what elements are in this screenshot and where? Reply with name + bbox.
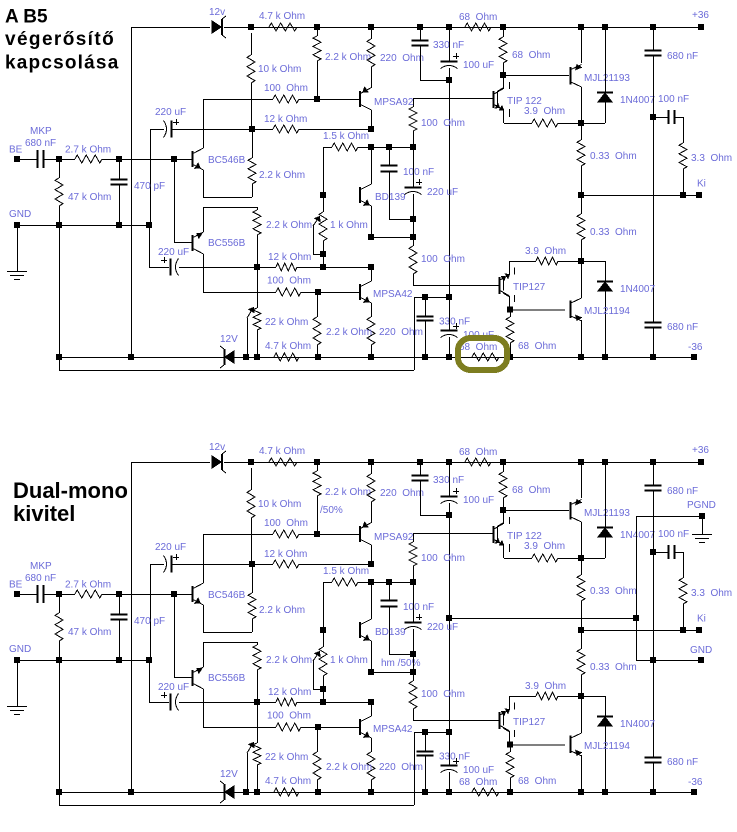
transistor TIP122 <box>493 526 495 543</box>
svg-text:100 Ohm: 100 Ohm <box>267 711 311 722</box>
svg-text:12V: 12V <box>220 769 238 780</box>
svg-text:330 nF: 330 nF <box>439 317 470 328</box>
svg-text:10 k Ohm: 10 k Ohm <box>258 64 301 75</box>
resistor 100 Ohm col5 lower <box>409 681 417 709</box>
resistor 68 Ohm vert right <box>503 465 505 472</box>
capacitor 330nF top <box>420 30 422 40</box>
wire MJL21194 base <box>510 744 565 746</box>
resistor 68 Ohm bottom rail <box>472 788 499 796</box>
resistor 4.7k top <box>236 462 269 464</box>
svg-text:MPSA42: MPSA42 <box>373 289 413 300</box>
svg-text:100 Ohm: 100 Ohm <box>264 83 308 94</box>
wire TIP122 base feed <box>413 98 415 107</box>
svg-text:2.7 k Ohm: 2.7 k Ohm <box>65 145 111 156</box>
svg-text:0.33 Ohm: 0.33 Ohm <box>590 586 637 597</box>
svg-text:2.2 k Ohm: 2.2 k Ohm <box>259 605 305 616</box>
resistor 12k row1 <box>273 560 299 568</box>
wire BC546B collector row <box>204 534 273 536</box>
wire TIP122 base feed <box>413 533 415 542</box>
wire BC556 collector row <box>203 292 276 294</box>
resistor 68 Ohm top rail <box>465 23 491 31</box>
svg-text:12 k Ohm: 12 k Ohm <box>268 252 311 263</box>
capacitor 330nF top <box>420 465 422 475</box>
resistor 1.5k <box>323 147 332 149</box>
capacitor 680nF top right <box>653 465 655 485</box>
svg-text:Ki: Ki <box>697 179 706 190</box>
resistor 100 Ohm row2 <box>276 288 301 296</box>
svg-text:0.33 Ohm: 0.33 Ohm <box>590 151 637 162</box>
svg-text:GND: GND <box>9 209 31 220</box>
capacitor 100uF lower <box>449 297 451 330</box>
wire 59 column to rail <box>59 225 61 370</box>
ground symbol input <box>17 660 19 706</box>
resistor 0.33 Ohm upper <box>581 558 583 575</box>
capacitor 100nF mid <box>389 582 391 600</box>
capacitor 330nF lower <box>423 730 428 735</box>
resistor 47k <box>59 159 61 178</box>
capacitor MKP 680nF input <box>17 594 37 596</box>
svg-text:MJL21194: MJL21194 <box>584 741 630 752</box>
resistor 100 Ohm col5 <box>409 542 417 566</box>
svg-text:1N4007: 1N4007 <box>620 530 655 541</box>
svg-text:470 pF: 470 pF <box>134 181 165 192</box>
svg-text:PGND: PGND <box>687 500 716 511</box>
svg-text:BC546B: BC546B <box>208 155 246 166</box>
svg-text:1 k Ohm: 1 k Ohm <box>330 655 368 666</box>
svg-text:1 k Ohm: 1 k Ohm <box>330 220 368 231</box>
resistor 2.2k diff1 <box>248 158 256 184</box>
wire 653 column down <box>653 552 655 757</box>
resistor 2.2k col3 top <box>317 30 319 36</box>
svg-text:47 k Ohm: 47 k Ohm <box>68 627 111 638</box>
wire 1.5k row <box>323 147 325 195</box>
svg-text:68 Ohm: 68 Ohm <box>518 341 556 352</box>
resistor 12k row1 <box>273 125 299 133</box>
transistor MPSA42 <box>359 719 361 735</box>
wire BD139 emitter row <box>371 237 413 239</box>
wire PGND link row <box>449 618 637 620</box>
svg-text:680 nF: 680 nF <box>667 51 698 62</box>
svg-text:MPSA92: MPSA92 <box>374 532 414 543</box>
svg-text:MKP: MKP <box>30 561 52 572</box>
svg-text:2.2 k Ohm: 2.2 k Ohm <box>266 220 312 231</box>
svg-text:1N4007: 1N4007 <box>620 719 655 730</box>
wire left vertical link <box>131 462 133 792</box>
svg-text:12 k Ohm: 12 k Ohm <box>264 114 307 125</box>
wire 413 column down <box>413 237 415 246</box>
svg-text:68 Ohm: 68 Ohm <box>459 447 497 458</box>
capacitor 470pF <box>119 594 121 614</box>
node bottom rail junctions <box>129 790 134 795</box>
wire diode bottom link <box>605 696 607 716</box>
resistor 100 Ohm col5 lower <box>409 246 417 274</box>
wire BC556 collector row <box>203 727 276 729</box>
svg-text:680 nF: 680 nF <box>25 138 56 149</box>
svg-text:100 nF: 100 nF <box>658 529 689 540</box>
resistor 0.33 Ohm lower <box>581 630 583 649</box>
wire BC546 emitter row <box>203 197 252 199</box>
svg-text:1.5 k Ohm: 1.5 k Ohm <box>323 566 369 577</box>
node input BE <box>15 157 20 162</box>
resistor 2.7k <box>59 594 75 596</box>
capacitor 100uF top <box>449 465 451 496</box>
svg-text:3.9 Ohm: 3.9 Ohm <box>524 106 565 117</box>
svg-text:2.2 k Ohm: 2.2 k Ohm <box>266 655 312 666</box>
wire BC556 base row <box>174 594 176 677</box>
resistor 1.5k <box>323 582 332 584</box>
capacitor 100nF zobel <box>653 117 668 119</box>
transistor BD139 <box>359 622 361 638</box>
svg-text:MKP: MKP <box>30 126 52 137</box>
transistor MJL21194 <box>570 736 572 754</box>
svg-text:100 Ohm: 100 Ohm <box>421 553 465 564</box>
transistor BC546B <box>192 586 194 602</box>
svg-text:3.9 Ohm: 3.9 Ohm <box>524 541 565 552</box>
svg-text:68 Ohm: 68 Ohm <box>459 12 497 23</box>
svg-text:220 uF: 220 uF <box>158 247 189 258</box>
svg-text:100 Ohm: 100 Ohm <box>421 254 465 265</box>
svg-text:220 Ohm: 220 Ohm <box>379 762 423 773</box>
svg-text:12V: 12V <box>220 334 238 345</box>
wire top rail +36 <box>131 27 210 29</box>
svg-text:12v: 12v <box>209 7 225 18</box>
capacitor 470pF <box>119 159 121 179</box>
svg-text:BC546B: BC546B <box>208 590 246 601</box>
wire 3.9 Ohm bottom row <box>510 261 536 263</box>
transistor TIP127 <box>499 277 501 294</box>
wire bias feed line <box>59 370 414 372</box>
resistor 2.2k diff1 <box>248 593 256 619</box>
capacitor 220uF lower <box>149 660 151 702</box>
resistor 0.33 Ohm lower <box>581 195 583 214</box>
capacitor 100nF zobel <box>653 552 668 554</box>
wire 413 column down <box>413 672 415 681</box>
capacitor MKP 680nF input <box>17 159 37 161</box>
svg-text:220 uF: 220 uF <box>158 682 189 693</box>
wire 449 column <box>449 515 451 732</box>
svg-text:12 k Ohm: 12 k Ohm <box>264 549 307 560</box>
svg-text:220 Ohm: 220 Ohm <box>380 488 424 499</box>
wire MJL21193 base <box>503 75 569 77</box>
wire GND out row <box>636 660 701 662</box>
resistor 2.2k col3 bottom <box>317 292 319 317</box>
resistor 2.2k diff2 <box>253 645 261 670</box>
ground symbol input <box>17 225 19 271</box>
resistor 2.2k col3 top <box>317 465 319 471</box>
svg-text:1N4007: 1N4007 <box>620 284 655 295</box>
resistor 100 Ohm row2 <box>276 723 301 731</box>
svg-text:MPSA92: MPSA92 <box>374 97 414 108</box>
resistor 2.2k diff2 <box>253 210 261 235</box>
zener D2 12V bottom rail <box>224 349 226 365</box>
trimmer 1k <box>321 193 326 198</box>
diode 1N4007 top <box>605 465 607 527</box>
resistor 220 Ohm col4 bottom <box>367 752 375 780</box>
svg-text:TIP127: TIP127 <box>513 717 546 728</box>
wire 449 column <box>449 80 451 297</box>
svg-text:4.7 k Ohm: 4.7 k Ohm <box>265 776 311 787</box>
capacitor 680nF lower right <box>645 323 662 328</box>
resistor 68 Ohm bottom rail <box>472 353 499 361</box>
svg-text:100 Ohm: 100 Ohm <box>421 118 465 129</box>
resistor 3.3 Ohm zobel <box>683 117 685 143</box>
svg-text:10 k Ohm: 10 k Ohm <box>258 499 301 510</box>
svg-text:220 uF: 220 uF <box>427 622 458 633</box>
svg-text:680 nF: 680 nF <box>25 573 56 584</box>
svg-text:22 k Ohm: 22 k Ohm <box>265 317 308 328</box>
zener D2 12V bottom rail <box>224 784 226 800</box>
capacitor 220uF mid <box>405 187 422 189</box>
wire BC556 base row <box>174 159 176 242</box>
resistor 68 Ohm top rail <box>465 458 491 466</box>
svg-text:68 Ohm: 68 Ohm <box>459 777 497 788</box>
trimmer 1k <box>321 628 326 633</box>
capacitor 100uF top <box>449 30 451 61</box>
svg-text:2.7 k Ohm: 2.7 k Ohm <box>65 580 111 591</box>
svg-text:680 nF: 680 nF <box>667 757 698 768</box>
node +36 terminal <box>699 460 704 465</box>
node top rail junctions <box>249 460 254 465</box>
svg-text:BE: BE <box>9 580 23 591</box>
resistor 4.7k bottom <box>274 788 299 796</box>
resistor 4.7k bottom <box>274 353 299 361</box>
wire output Ki row <box>581 195 699 197</box>
svg-text:680 nF: 680 nF <box>667 486 698 497</box>
node GND terminal <box>15 658 20 663</box>
transistor TIP122 <box>493 91 495 108</box>
resistor 47k <box>59 594 61 613</box>
node top rail junctions <box>249 25 254 30</box>
wire 12k row1 / 220uF <box>150 129 152 225</box>
resistor 220 Ohm col4 top <box>371 30 373 39</box>
svg-text:/50%: /50% <box>320 505 343 516</box>
resistor 4.7k top <box>236 27 269 29</box>
svg-text:100 Ohm: 100 Ohm <box>421 689 465 700</box>
node -36 terminal <box>692 355 697 360</box>
wire 12k row1 / 220uF <box>150 564 152 660</box>
svg-text:470 pF: 470 pF <box>134 616 165 627</box>
svg-text:100 uF: 100 uF <box>463 60 494 71</box>
resistor 0.33 Ohm upper <box>581 123 583 140</box>
wire MJL21193 base <box>503 510 569 512</box>
svg-text:BD139: BD139 <box>375 627 406 638</box>
transistor Q MJL21193 <box>570 502 572 520</box>
resistor 12k row2 <box>276 698 297 706</box>
wire BC546 emitter row <box>203 632 252 634</box>
svg-text:680 nF: 680 nF <box>667 322 698 333</box>
resistor 12k row2 <box>276 263 297 271</box>
svg-text:68 Ohm: 68 Ohm <box>518 776 556 787</box>
svg-text:47 k Ohm: 47 k Ohm <box>68 192 111 203</box>
svg-text:MPSA42: MPSA42 <box>373 724 413 735</box>
svg-text:3.3 Ohm: 3.3 Ohm <box>691 153 732 164</box>
svg-text:-36: -36 <box>688 777 703 788</box>
resistor 3.3 Ohm zobel <box>683 552 685 578</box>
wire diode bottom link <box>605 261 607 281</box>
svg-text:68 Ohm: 68 Ohm <box>512 485 550 496</box>
svg-text:100 nF: 100 nF <box>403 167 434 178</box>
wire bottom rail -36 <box>59 357 224 359</box>
trimmer 22k <box>257 267 259 308</box>
transistor MJL21194 <box>570 301 572 319</box>
wire BD139 emitter row <box>371 672 413 674</box>
svg-text:Dual-mono: Dual-mono <box>13 478 128 503</box>
node +36 terminal <box>699 25 704 30</box>
svg-text:220 uF: 220 uF <box>155 107 186 118</box>
capacitor 330nF lower <box>423 295 428 300</box>
svg-text:-36: -36 <box>688 342 703 353</box>
svg-text:3.3 Ohm: 3.3 Ohm <box>691 588 732 599</box>
node input BE <box>15 592 20 597</box>
svg-text:+36: +36 <box>692 445 709 456</box>
svg-text:Ki: Ki <box>697 614 706 625</box>
transistor BC556B <box>192 235 194 251</box>
wire BC556 emitter row <box>203 642 257 644</box>
svg-text:4.7 k Ohm: 4.7 k Ohm <box>265 341 311 352</box>
capacitor 220uF lower <box>149 225 151 267</box>
svg-text:MJL21193: MJL21193 <box>584 73 630 84</box>
resistor 68 Ohm vert lower <box>510 309 512 317</box>
transistor MPSA42 <box>359 284 361 300</box>
node GND terminal <box>15 223 20 228</box>
resistor 10k <box>251 33 253 55</box>
wire BC556 emitter row <box>203 207 257 209</box>
svg-text:TIP127: TIP127 <box>513 282 546 293</box>
resistor 2.2k col3 bottom <box>317 727 319 752</box>
svg-text:végerősítő: végerősítő <box>5 29 115 50</box>
capacitor 220uF mid <box>405 622 422 624</box>
svg-text:100 nF: 100 nF <box>403 602 434 613</box>
wire 59 column to rail <box>59 660 61 805</box>
resistor 100 Ohm row1 <box>273 95 299 103</box>
svg-text:kapcsolása: kapcsolása <box>5 53 119 74</box>
ground symbol PGND <box>702 516 704 534</box>
svg-text:GND: GND <box>9 644 31 655</box>
resistor 220 Ohm col4 bottom <box>367 317 375 345</box>
transistor BC546B <box>192 151 194 167</box>
wire output Ki row <box>581 630 699 632</box>
svg-text:100 Ohm: 100 Ohm <box>264 518 308 529</box>
svg-text:330 nF: 330 nF <box>433 475 464 486</box>
wire 3.9 Ohm top row <box>504 123 532 125</box>
svg-text:330 nF: 330 nF <box>439 752 470 763</box>
svg-text:220 uF: 220 uF <box>155 542 186 553</box>
resistor 10k <box>251 468 253 490</box>
wire left vertical link <box>131 27 133 357</box>
svg-text:12v: 12v <box>209 442 225 453</box>
svg-text:68 Ohm: 68 Ohm <box>512 50 550 61</box>
transistor MPSA92 <box>359 91 361 107</box>
svg-text:MJL21194: MJL21194 <box>584 306 630 317</box>
svg-text:1.5 k Ohm: 1.5 k Ohm <box>323 131 369 142</box>
transistor BD139 <box>359 187 361 203</box>
wire BC546B collector row <box>204 99 273 101</box>
svg-text:+36: +36 <box>692 10 709 21</box>
svg-text:22 k Ohm: 22 k Ohm <box>265 752 308 763</box>
capacitor 100nF mid <box>389 147 391 165</box>
svg-text:100 uF: 100 uF <box>463 495 494 506</box>
svg-text:100 uF: 100 uF <box>463 765 494 776</box>
wire bottom rail -36 <box>59 792 224 794</box>
svg-text:BD139: BD139 <box>375 192 406 203</box>
transistor BC556B <box>192 670 194 686</box>
wire GND row <box>17 660 149 662</box>
resistor 220 Ohm col4 top <box>371 465 373 474</box>
trimmer 22k <box>257 702 259 743</box>
wire GND row <box>17 225 149 227</box>
transistor TIP127 <box>499 712 501 729</box>
svg-text:2.2 k Ohm: 2.2 k Ohm <box>259 170 305 181</box>
svg-text:hm /50%: hm /50% <box>381 658 421 669</box>
svg-text:GND: GND <box>690 645 712 656</box>
svg-text:12 k Ohm: 12 k Ohm <box>268 687 311 698</box>
svg-text:A B5: A B5 <box>5 7 48 28</box>
svg-text:100 nF: 100 nF <box>658 94 689 105</box>
wire 3.9 Ohm bottom row <box>510 696 536 698</box>
svg-text:68 Ohm: 68 Ohm <box>459 342 497 353</box>
svg-text:1N4007: 1N4007 <box>620 95 655 106</box>
wire bias feed line <box>59 805 414 807</box>
svg-text:2.2 k Ohm: 2.2 k Ohm <box>326 327 372 338</box>
svg-text:MJL21193: MJL21193 <box>584 508 630 519</box>
svg-text:BC556B: BC556B <box>208 238 246 249</box>
wire 1.5k row <box>323 582 325 630</box>
svg-text:220 uF: 220 uF <box>427 187 458 198</box>
wire MJL21194 base <box>510 309 565 311</box>
highlight ellipse around 68 Ohm <box>458 338 507 370</box>
svg-text:4.7 k Ohm: 4.7 k Ohm <box>259 11 305 22</box>
svg-text:100 Ohm: 100 Ohm <box>267 276 311 287</box>
node bottom rail junctions <box>129 355 134 360</box>
resistor 68 Ohm vert lower <box>510 744 512 752</box>
resistor 68 Ohm vert right <box>503 30 505 37</box>
svg-text:3.9 Ohm: 3.9 Ohm <box>525 246 566 257</box>
diode 1N4007 top <box>605 30 607 92</box>
capacitor 680nF top right <box>653 30 655 50</box>
node -36 terminal <box>692 790 697 795</box>
svg-text:2.2 k Ohm: 2.2 k Ohm <box>325 52 371 63</box>
capacitor 680nF lower right <box>645 758 662 763</box>
svg-text:330 nF: 330 nF <box>433 40 464 51</box>
svg-text:0.33 Ohm: 0.33 Ohm <box>590 662 637 673</box>
svg-text:220 Ohm: 220 Ohm <box>380 53 424 64</box>
svg-text:2.2 k Ohm: 2.2 k Ohm <box>326 762 372 773</box>
zener D1 12V top rail <box>212 21 221 33</box>
wire top rail +36 <box>131 462 210 464</box>
svg-text:kivitel: kivitel <box>13 501 75 526</box>
wire PGND drop <box>636 516 638 660</box>
svg-text:BC556B: BC556B <box>208 673 246 684</box>
svg-text:3.9 Ohm: 3.9 Ohm <box>525 681 566 692</box>
wire 653 column down <box>653 117 655 322</box>
svg-text:4.7 k Ohm: 4.7 k Ohm <box>259 446 305 457</box>
resistor 2.7k <box>59 159 75 161</box>
capacitor 100uF lower <box>449 732 451 765</box>
resistor 100 Ohm col5 <box>409 107 417 131</box>
resistor 100 Ohm row1 <box>273 530 299 538</box>
svg-text:2.2 k Ohm: 2.2 k Ohm <box>325 487 371 498</box>
svg-text:BE: BE <box>9 145 23 156</box>
transistor Q MJL21193 <box>570 67 572 85</box>
wire 3.9 Ohm top row <box>504 558 532 560</box>
transistor MPSA92 <box>359 526 361 542</box>
svg-text:220 Ohm: 220 Ohm <box>379 327 423 338</box>
zener D1 12V top rail <box>212 456 221 468</box>
svg-text:0.33 Ohm: 0.33 Ohm <box>590 227 637 238</box>
